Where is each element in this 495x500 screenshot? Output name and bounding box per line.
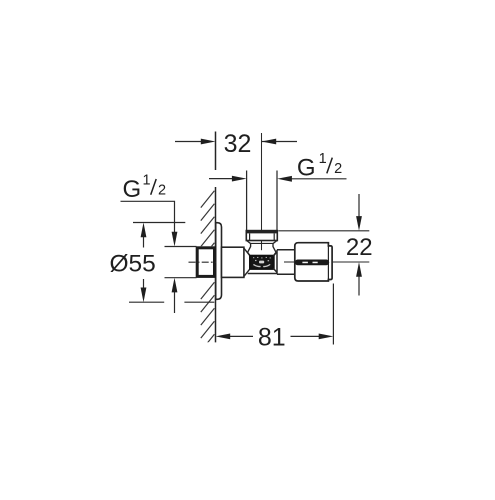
svg-text:Ø55: Ø55 [110, 251, 156, 278]
wall section line lower segment [215, 187, 217, 342]
22 top arrowhead [356, 216, 362, 231]
G1/2 wall union square fitting [197, 248, 214, 277]
cone left cylinder to knurl [244, 248, 250, 276]
22 dimension line [358, 194, 360, 296]
Ø55 top extension line [133, 222, 185, 224]
Ø55 bottom arrowhead [141, 288, 147, 303]
valve body left cylinder [222, 247, 244, 277]
81 right extension line [332, 284, 334, 345]
top G1/2 dimension line (pipe thread) [209, 178, 347, 180]
left G1/2 label [123, 172, 167, 203]
wall union top extension line [165, 246, 197, 248]
dimension 32 dimension line [175, 141, 297, 143]
left G1/2 lower arrowhead [172, 278, 178, 293]
Ø55 dimension line [143, 236, 145, 289]
wall section line upper segment [215, 132, 217, 171]
svg-text:22: 22 [346, 234, 373, 261]
wall hatching [201, 191, 215, 351]
svg-text:2: 2 [158, 183, 166, 199]
pipe thread right arrowhead [277, 176, 292, 182]
handle [295, 243, 332, 281]
Ø55 top arrowhead [141, 223, 147, 238]
body below knurl [248, 273, 277, 275]
left G1/2 leader underline [121, 201, 175, 232]
compression nut [246, 231, 278, 241]
svg-text:G: G [297, 155, 316, 182]
handle slot [295, 260, 329, 265]
outlet pipe centre line [261, 133, 263, 250]
pipe thread left arrowhead [232, 176, 247, 182]
left G1/2 lower dim line [174, 292, 176, 313]
horizontal centre line left of handle [284, 261, 295, 263]
fitting centre dash-dot line [189, 261, 217, 263]
left G1/2 leader arrowhead [172, 232, 178, 247]
svg-text:G: G [123, 176, 142, 203]
Ø55 bottom extension line [129, 301, 214, 303]
svg-text:32: 32 [224, 130, 252, 158]
outlet pipe left edge [246, 171, 248, 231]
stem between knurl and handle [273, 250, 295, 274]
svg-text:1: 1 [319, 151, 327, 167]
svg-text:81: 81 [258, 324, 286, 352]
81 left arrowhead [216, 334, 231, 340]
horizontal centre line right of handle [332, 261, 369, 263]
svg-text:2: 2 [334, 161, 342, 177]
right G1/2 label [297, 151, 342, 182]
dimension 32 left arrowhead [201, 139, 216, 145]
81 right arrowhead [319, 334, 334, 340]
dimension 32 right arrowhead [262, 139, 277, 145]
wall union bottom extension line [165, 277, 197, 279]
22 bottom arrowhead [356, 262, 362, 277]
knurled ring (dark) [250, 256, 273, 269]
escutcheon plate (Ø55 wall flange) [216, 223, 222, 300]
funnel transition below nut [247, 241, 277, 257]
outlet pipe right edge [276, 171, 278, 231]
22 top extension line [278, 230, 369, 232]
svg-text:1: 1 [143, 172, 151, 188]
81 dimension line [229, 335, 320, 337]
handle cap edge line [327, 243, 329, 281]
